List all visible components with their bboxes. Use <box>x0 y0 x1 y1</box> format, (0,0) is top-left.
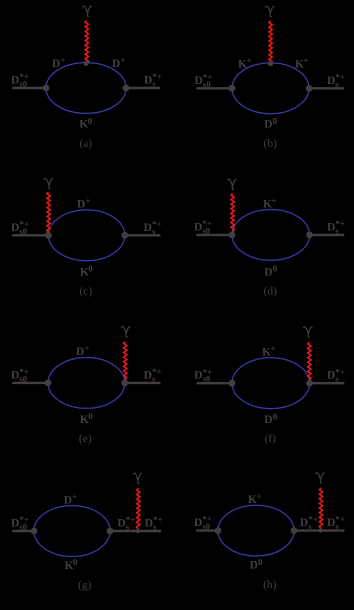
svg-text:(a): (a) <box>79 138 92 150</box>
wire: external D*s0 line, panel a left <box>12 87 46 89</box>
svg-text:s0: s0 <box>19 226 27 236</box>
photon-line junction dot, panel h <box>319 528 323 532</box>
svg-text:+: + <box>270 344 275 354</box>
photon-line junction dot, panel g <box>136 529 140 533</box>
svg-text:D: D <box>194 370 202 382</box>
svg-text:D: D <box>327 75 335 87</box>
external label D*+_s0, panel a <box>11 72 29 89</box>
wire: external Ds* line, panel e right <box>125 382 161 384</box>
meson loop ellipse, panel g <box>34 506 110 557</box>
wire: external D*s0 line, panel h left <box>196 529 218 531</box>
wire: external D*s0 line, panel d left <box>197 234 233 236</box>
svg-text:D: D <box>144 75 152 87</box>
label D*+_s after photon, panel h <box>327 514 345 531</box>
photon from top of loop, panel a <box>85 21 88 64</box>
svg-text:D: D <box>250 560 258 572</box>
svg-text:D: D <box>194 222 202 234</box>
svg-text:D: D <box>11 369 19 381</box>
label K0 bottom, panel g <box>65 557 78 572</box>
external label D*+_s, panel c <box>144 219 162 236</box>
wire: external D*s0 line, panel c left <box>12 234 48 236</box>
svg-text:0: 0 <box>273 264 278 274</box>
svg-text:D: D <box>112 58 120 70</box>
svg-text:D: D <box>52 58 60 70</box>
svg-text:+: + <box>256 491 261 501</box>
wire: external Ds* line, panel a right <box>126 87 160 89</box>
svg-text:0: 0 <box>88 264 93 274</box>
label D+ top, panel c <box>77 196 91 211</box>
photon from external line, panel h <box>319 488 322 529</box>
label D+ upper-left, panel a <box>52 55 66 70</box>
label K0 bottom, panel e <box>80 411 93 426</box>
svg-text:+: + <box>246 56 251 66</box>
svg-text:+: + <box>120 55 125 65</box>
svg-text:D: D <box>264 119 272 131</box>
label D*+_s after photon, panel g <box>145 515 163 532</box>
photon from left vertex, panel c <box>47 192 50 232</box>
photon label gamma <box>266 6 275 16</box>
label D+ top, panel e <box>76 343 90 358</box>
svg-text:D: D <box>264 414 272 426</box>
svg-text:s0: s0 <box>203 79 211 89</box>
svg-text:0: 0 <box>273 411 278 421</box>
svg-text:s0: s0 <box>19 373 27 383</box>
vertex dot right, panel b <box>306 85 313 92</box>
label D*+_s before photon, panel g <box>117 515 135 532</box>
svg-text:(e): (e) <box>79 433 92 445</box>
meson loop ellipse, panel h <box>218 505 294 556</box>
photon label gamma <box>316 473 325 483</box>
external label D*+_s0, panel h <box>194 514 212 531</box>
vertex dot left, panel a <box>43 85 50 92</box>
svg-text:D: D <box>11 75 19 87</box>
svg-text:D: D <box>11 517 19 529</box>
svg-text:(f): (f) <box>264 433 276 445</box>
svg-text:s0: s0 <box>202 226 210 236</box>
external label D*+_s, panel d <box>327 219 345 236</box>
external label D*+_s, panel e <box>144 367 162 384</box>
label K0 bottom, panel a <box>79 116 92 131</box>
photon label gamma <box>83 6 92 16</box>
svg-text:0: 0 <box>258 557 263 567</box>
photon from left vertex, panel d <box>231 193 234 231</box>
svg-text:(g): (g) <box>78 580 92 592</box>
external label D*+_s, panel a <box>144 72 162 89</box>
label D+ top, panel g <box>64 492 78 507</box>
external label D*+_s, panel f <box>327 367 345 384</box>
svg-text:D: D <box>117 517 125 529</box>
meson loop ellipse, panel c <box>48 210 124 261</box>
svg-text:s0: s0 <box>202 521 210 531</box>
vertex dot right, panel e <box>121 380 128 387</box>
vertex dot right, panel f <box>306 380 313 387</box>
external label D*+_s0, panel g <box>11 515 29 532</box>
external label D*+_s0, panel d <box>194 219 212 236</box>
svg-text:D: D <box>327 517 335 529</box>
label K+ top, panel d <box>263 196 277 211</box>
wire: external D*s0 line, panel e left <box>12 382 48 384</box>
label D0 bottom, panel h <box>250 557 263 572</box>
meson loop ellipse, panel a <box>46 63 126 114</box>
wire: external Ds* line, panel h right <box>294 529 345 531</box>
wire: external Ds* line, panel d right <box>310 234 345 236</box>
label K+ upper-left, panel b <box>238 56 252 71</box>
vertex dot left, panel b <box>229 85 236 92</box>
wire: external Ds* line, panel f right <box>310 382 345 384</box>
vertex dot left, panel d <box>229 232 236 239</box>
meson loop ellipse, panel b <box>232 63 309 114</box>
svg-text:D: D <box>195 75 203 87</box>
wire: external Ds* line, panel g right <box>110 530 161 532</box>
label K0 bottom, panel c <box>80 264 93 279</box>
vertex dot left, panel h <box>215 527 222 534</box>
svg-text:0: 0 <box>73 557 78 567</box>
photon label gamma <box>304 327 313 337</box>
wire: external D*s0 line, panel g left <box>12 530 34 532</box>
label D0 bottom, panel b <box>264 116 277 131</box>
photon vertex dot on loop top, panel b <box>268 61 273 66</box>
wire: external D*s0 line, panel b left <box>197 87 233 89</box>
vertex dot right, panel d <box>306 232 313 239</box>
wire: external Ds* line, panel c right <box>125 234 161 236</box>
photon from external line, panel g <box>137 488 140 529</box>
svg-text:D: D <box>145 517 153 529</box>
label K+ top, panel h <box>248 491 262 506</box>
svg-text:(c): (c) <box>79 285 92 297</box>
label D0 bottom, panel f <box>264 411 277 426</box>
vertex dot right, panel h <box>291 527 298 534</box>
vertex dot left, panel g <box>31 528 38 535</box>
meson loop ellipse, panel e <box>48 358 125 409</box>
svg-text:D: D <box>300 517 308 529</box>
svg-text:+: + <box>303 56 308 66</box>
meson loop ellipse, panel f <box>232 358 310 409</box>
photon from top of loop, panel b <box>269 21 272 63</box>
svg-text:s0: s0 <box>19 521 27 531</box>
svg-text:0: 0 <box>88 116 93 126</box>
svg-text:(d): (d) <box>263 285 277 297</box>
external label D*+_s0, panel e <box>11 367 29 384</box>
wire: external Ds* line, panel b right <box>309 87 344 89</box>
photon from right vertex, panel e <box>124 342 127 380</box>
svg-text:+: + <box>72 492 77 502</box>
svg-text:D: D <box>144 222 152 234</box>
external label D*+_s, panel b <box>327 72 345 89</box>
svg-text:D: D <box>76 346 84 358</box>
svg-text:D: D <box>327 222 335 234</box>
photon label gamma <box>228 179 237 189</box>
svg-text:D: D <box>327 370 335 382</box>
meson loop ellipse, panel d <box>232 210 310 261</box>
photon label gamma <box>121 326 130 336</box>
svg-text:D: D <box>144 369 152 381</box>
vertex dot left, panel e <box>45 380 52 387</box>
svg-text:D: D <box>77 198 85 210</box>
label D*+_s before photon, panel h <box>300 514 318 531</box>
vertex dot right, panel a <box>123 85 130 92</box>
label D0 bottom, panel d <box>264 264 277 279</box>
vertex dot right, panel g <box>107 528 114 535</box>
svg-text:D: D <box>194 517 202 529</box>
vertex dot left, panel f <box>229 380 236 387</box>
photon from right vertex, panel f <box>308 342 311 380</box>
svg-text:D: D <box>11 222 19 234</box>
photon vertex dot on loop top, panel a <box>84 61 89 66</box>
svg-text:0: 0 <box>273 116 278 126</box>
label D+ upper-right, panel a <box>112 55 126 70</box>
label K+ upper-right, panel b <box>295 56 309 71</box>
photon label gamma <box>133 473 142 483</box>
external label D*+_s0, panel b <box>195 72 213 89</box>
svg-text:(b): (b) <box>263 138 277 150</box>
svg-text:+: + <box>84 343 89 353</box>
svg-text:(h): (h) <box>263 579 277 591</box>
wire: external D*s0 line, panel f left <box>197 382 233 384</box>
svg-text:+: + <box>85 196 90 206</box>
vertex dot right, panel c <box>121 232 128 239</box>
svg-text:D: D <box>264 266 272 278</box>
vertex dot left, panel c <box>45 232 52 239</box>
svg-text:+: + <box>271 196 276 206</box>
svg-text:s0: s0 <box>19 79 27 89</box>
external label D*+_s0, panel f <box>194 367 212 384</box>
external label D*+_s0, panel c <box>11 219 29 236</box>
svg-text:s0: s0 <box>203 374 211 384</box>
svg-text:0: 0 <box>88 411 93 421</box>
label K+ top, panel f <box>262 344 276 359</box>
svg-text:+: + <box>60 55 65 65</box>
photon label gamma <box>44 178 53 188</box>
svg-text:D: D <box>64 494 72 506</box>
